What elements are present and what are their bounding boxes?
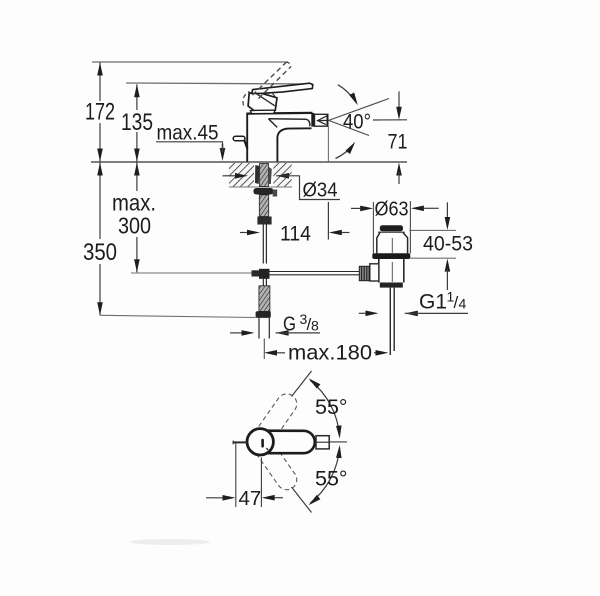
faint scan smudge bottom left — [130, 539, 210, 545]
supply pipe upper section walls — [263, 225, 266, 264]
supply pipe lower walls — [259, 318, 269, 339]
top view handle capsule body — [260, 431, 315, 454]
dimension max180 right arrow line — [374, 352, 377, 354]
dimension 350 top arrow — [97, 163, 103, 176]
dimension max300 bottom arrow — [134, 259, 140, 272]
svg-text:max.180: max.180 — [288, 342, 372, 365]
drain seal band — [380, 283, 403, 288]
dimension max45 underline leader — [156, 142, 223, 149]
drain shoulder left — [377, 233, 380, 254]
dimension 47 left arrow — [223, 495, 236, 501]
faucet body top edge — [246, 112, 312, 115]
55deg lower leg line — [292, 487, 312, 513]
55deg upper arc inner arrow — [336, 425, 342, 438]
dimension 47 left arrow line — [206, 497, 223, 499]
aerator right edge dark bar — [327, 114, 329, 126]
drain diam63 right extension line — [409, 201, 411, 254]
top view small mark — [267, 448, 269, 450]
drain pop-up knob cap — [380, 225, 403, 231]
40deg wedge upper line — [329, 99, 389, 121]
svg-text:135: 135 — [121, 109, 153, 136]
faucet body left edge — [246, 114, 248, 162]
deck hatch left block — [229, 163, 254, 187]
shank nut — [257, 217, 271, 225]
dimension 135 top arrow — [134, 84, 140, 97]
dimension 40-53 upper arrow — [445, 217, 451, 230]
drain lower body centerline — [391, 262, 393, 282]
dimension 71 lower arrow stem — [398, 172, 400, 184]
svg-text:8: 8 — [311, 318, 319, 334]
dashed raised lever lower line — [259, 67, 292, 99]
dimension 172 bottom arrow — [97, 149, 103, 162]
dashed rotated base arc — [243, 92, 250, 106]
top view pop-up rod stub — [233, 441, 247, 443]
second reference line (lever height 135) — [126, 83, 313, 84]
dimension 172 top arrow — [97, 63, 103, 76]
dimension G1 1/4 underline — [405, 312, 468, 314]
svg-text:55°: 55° — [315, 395, 348, 419]
top view faucet circle — [247, 429, 273, 455]
dashed raised lever tip — [286, 62, 291, 66]
svg-text:max.45: max.45 — [157, 122, 219, 145]
dimension G3/8 underline — [276, 332, 320, 334]
supply pipe short section — [263, 279, 266, 287]
dimension 47 right arrow line — [274, 497, 283, 499]
dimension 40-53 top reference line — [409, 229, 456, 231]
faucet spout underside and downpipe curve — [277, 128, 311, 162]
svg-text:Ø63: Ø63 — [375, 197, 409, 220]
knurl ridges — [362, 266, 370, 280]
dimension G3/8 right arrow — [276, 330, 289, 336]
deck underside line — [229, 186, 292, 188]
dimension max180 left arrow — [264, 350, 277, 356]
dimension 135 bottom arrow — [134, 149, 140, 162]
rod guide box right of washer — [273, 190, 278, 197]
55deg lower arc outer arrow — [307, 495, 321, 508]
drain tailpipe left wall — [389, 288, 391, 355]
svg-text:71: 71 — [388, 131, 408, 154]
55deg lower swing arc — [310, 448, 339, 504]
svg-text:G: G — [283, 314, 296, 336]
drain knurled adjuster knob — [359, 266, 370, 280]
dimension 350 bottom reference line — [100, 315, 256, 317]
drain cap lower rim — [378, 231, 405, 233]
dimension 172 line lower segment — [99, 123, 101, 162]
dimension 47 left extension line — [235, 444, 237, 508]
dimension 350 bottom arrow — [97, 302, 103, 315]
40deg wedge lower line — [329, 120, 369, 135]
dimension 114 right arrow — [329, 230, 342, 236]
drain upper body centerline — [391, 238, 393, 253]
supply pipe centerline — [263, 339, 265, 360]
dimension 114 left arrow — [247, 230, 260, 236]
dimension 47 right arrow — [262, 495, 275, 501]
dimension 172 line upper segment — [99, 63, 101, 102]
dimension diam63 right arrow — [411, 206, 424, 212]
top view centerline right — [329, 441, 347, 443]
dimension diam34 right arrow — [276, 173, 289, 179]
svg-text:G1: G1 — [419, 291, 447, 314]
top view dashed handle rotated up 55deg — [244, 390, 301, 459]
dimension max300 line lower segment — [136, 237, 138, 272]
rod stub end tick — [232, 441, 234, 445]
drain flange — [372, 253, 410, 259]
dimension 47 right extension line — [260, 458, 262, 508]
svg-text:Ø34: Ø34 — [303, 179, 338, 202]
dimension 71 upper arrow — [396, 107, 402, 120]
drain lower body left wall — [378, 259, 380, 283]
dimension max300 line upper segment — [136, 163, 138, 192]
55deg upper leg line — [292, 371, 312, 397]
mounting shank in deck hole — [260, 164, 269, 187]
handle blade lower edge line — [272, 93, 277, 100]
faucet body interior left diagonal — [269, 119, 278, 128]
deck / countertop line — [91, 161, 407, 163]
40deg upper arc arrow — [349, 93, 360, 107]
40deg lower arc arrow — [345, 140, 357, 154]
dimension G1 1/4 right arrow — [405, 311, 418, 317]
drain tailpipe right wall — [393, 288, 395, 351]
drain side outlet box — [370, 264, 379, 281]
deck hatch right block — [273, 163, 291, 187]
svg-text:47: 47 — [239, 487, 262, 510]
55deg upper swing arc — [310, 380, 339, 436]
svg-text:172: 172 — [85, 99, 115, 126]
top view aerator midline — [316, 441, 329, 443]
handle lever blade — [252, 83, 313, 93]
dimension 40-53 lower arrow — [445, 259, 451, 272]
dimension 40-53 lower stem — [446, 269, 448, 290]
dimension G1 1/4 left arrow — [366, 311, 379, 317]
dimension 71 lower arrow — [396, 163, 402, 176]
top view dashed handle rotated down 55deg — [244, 425, 301, 494]
dimension diam63 left arrow — [360, 206, 373, 212]
svg-text:350: 350 — [83, 239, 117, 266]
dimension G1 1/4 left arrow line — [359, 312, 366, 314]
dimension diam34 left arrow line — [223, 175, 237, 177]
dimension max180 left arrow line — [277, 352, 286, 354]
svg-text:55°: 55° — [315, 467, 348, 491]
cross fitting square — [259, 269, 270, 279]
dimension max300 top arrow — [134, 163, 140, 176]
svg-text:40-53: 40-53 — [423, 233, 473, 256]
dimension 135 line lower segment — [136, 132, 138, 162]
40deg upper swing arc — [338, 85, 356, 103]
washer under deck — [253, 188, 273, 195]
dimension 114 extension line upper — [327, 127, 329, 162]
40deg lower swing arc — [336, 145, 354, 159]
dashed raised lever upper line — [253, 63, 287, 96]
G3/8 threaded section — [259, 286, 270, 312]
pop-up rod horizontal reference line — [131, 272, 252, 274]
svg-text:4: 4 — [459, 296, 467, 312]
dimension 40-53 bottom reference line — [410, 257, 456, 259]
55deg lower arc inner arrow — [336, 445, 342, 458]
threaded shank below deck — [259, 195, 268, 217]
svg-text:114: 114 — [280, 223, 311, 246]
pop-up rod cross bar — [252, 270, 269, 276]
dimension 114 extension line lower — [327, 202, 329, 240]
dimension 135 line upper segment — [136, 84, 138, 110]
body right edge dark bar — [311, 113, 314, 127]
dimension 114 right arrow line — [342, 232, 350, 234]
horizontal pop-up rod to drain — [269, 272, 360, 275]
drain lower body right wall — [403, 259, 405, 283]
dimension max45 down arrow — [220, 148, 226, 161]
dimension G3/8 left arrow line — [230, 332, 242, 334]
dimension 350 line upper segment — [99, 163, 101, 240]
top view aerator rectangle — [316, 436, 329, 449]
dimension 114 left arrow line — [240, 232, 248, 234]
shank left wedge washer — [255, 165, 260, 184]
dimension diam63 right arrow line — [424, 207, 439, 209]
svg-text:300: 300 — [118, 213, 151, 239]
top reference line (raised lever height) — [92, 61, 288, 63]
handle skirt on body — [250, 110, 275, 113]
dimension 40-53 upper stem — [446, 202, 448, 220]
dimension 71 upper reference line — [373, 119, 407, 121]
drain shoulder right — [403, 233, 408, 254]
handle blade inner crease — [255, 93, 275, 106]
dimension diam34 left arrow — [235, 173, 248, 179]
aerator nozzle chevron — [318, 116, 329, 125]
pop-up rod knob at faucet left — [233, 136, 245, 141]
dimension 350 line lower segment — [99, 264, 101, 315]
dimension diam34 leader line — [276, 176, 340, 200]
pop-up rod into body — [244, 140, 247, 149]
faucet body interior spout top line — [269, 119, 310, 126]
55deg upper arc outer arrow — [307, 376, 321, 389]
dimension 71 upper arrow stem — [398, 91, 400, 110]
dimension max180 right arrow — [376, 350, 389, 356]
dimension diam63 left arrow line — [351, 207, 361, 209]
handle base block — [248, 93, 277, 111]
dimension max45 arrow stem — [222, 144, 224, 152]
drain diam63 left extension line — [372, 202, 374, 254]
svg-text:40°: 40° — [343, 111, 371, 134]
dimension G3/8 left arrow — [242, 330, 255, 336]
shank right wedge — [269, 167, 272, 184]
aerator square outline — [315, 114, 328, 126]
top view lever slot tick — [261, 439, 264, 448]
G3/8 nut — [256, 311, 271, 318]
